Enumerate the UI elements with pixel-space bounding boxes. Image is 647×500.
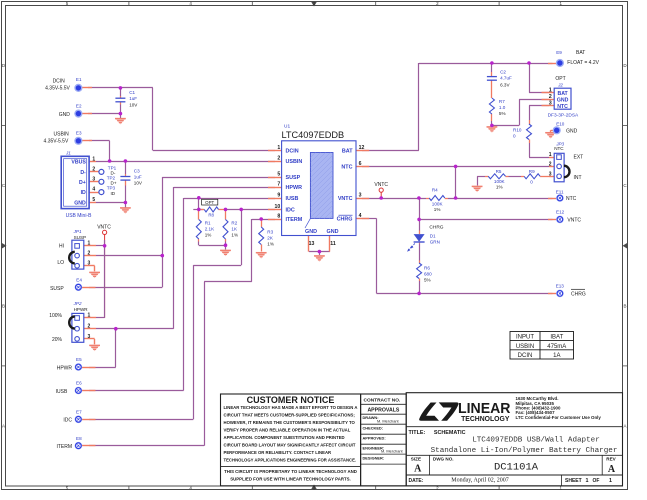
svg-text:3: 3 (359, 193, 362, 199)
svg-text:LO: LO (57, 260, 64, 266)
svg-text:IUSB: IUSB (56, 389, 68, 395)
svg-text:B: B (2, 303, 5, 308)
svg-text:GND: GND (74, 201, 86, 207)
svg-text:1: 1 (92, 156, 95, 162)
svg-text:TECHNOLOGY APPLICATIONS ENGINE: TECHNOLOGY APPLICATIONS ENGINEERING FOR … (224, 458, 357, 463)
svg-text:GND: GND (305, 229, 317, 235)
svg-text:3: 3 (549, 172, 552, 178)
svg-text:5%: 5% (424, 277, 431, 282)
svg-text:APPROVED:: APPROVED: (363, 436, 386, 441)
svg-text:REV: REV (606, 456, 616, 461)
svg-text:TECHNOLOGY: TECHNOLOGY (461, 414, 509, 423)
svg-text:E8: E8 (76, 436, 82, 441)
svg-text:USB Mini-B: USB Mini-B (66, 213, 93, 219)
svg-text:USBIN: USBIN (516, 344, 534, 350)
svg-text:DCIN: DCIN (53, 78, 66, 84)
svg-text:1: 1 (88, 240, 91, 246)
svg-text:2: 2 (88, 323, 91, 329)
svg-text:1: 1 (549, 152, 552, 158)
svg-text:Monday, April 02, 2007: Monday, April 02, 2007 (451, 478, 508, 484)
svg-text:8: 8 (277, 214, 280, 220)
svg-text:10V: 10V (134, 180, 143, 185)
svg-text:13: 13 (309, 241, 315, 247)
svg-text:HPWR: HPWR (286, 185, 303, 191)
svg-text:OPT: OPT (555, 76, 565, 82)
svg-text:LTC4097EDDB: LTC4097EDDB (282, 130, 345, 140)
svg-text:ID: ID (111, 191, 116, 196)
svg-text:DATE:: DATE: (409, 478, 424, 484)
svg-text:2: 2 (88, 250, 91, 256)
svg-text:C3: C3 (134, 168, 140, 173)
svg-text:D1: D1 (430, 234, 436, 239)
svg-text:CHRG: CHRG (571, 292, 586, 298)
svg-text:IBAT: IBAT (550, 335, 563, 341)
svg-text:ITERM: ITERM (56, 444, 72, 450)
svg-text:GND: GND (566, 128, 578, 134)
svg-text:R8: R8 (208, 213, 214, 218)
svg-text:Standalone Li-Ion/Polymer Batt: Standalone Li-Ion/Polymer Battery Charge… (431, 447, 618, 455)
svg-text:LINEAR TECHNOLOGY HAS MADE A B: LINEAR TECHNOLOGY HAS MADE A BEST EFFORT… (224, 405, 358, 410)
svg-text:ITERM: ITERM (286, 217, 303, 223)
svg-text:6: 6 (359, 161, 362, 167)
svg-text:INPUT: INPUT (516, 335, 534, 341)
svg-text:4: 4 (359, 213, 362, 219)
svg-text:CONTRACT NO.: CONTRACT NO. (364, 397, 401, 403)
svg-text:A: A (2, 424, 5, 429)
svg-text:E2: E2 (76, 104, 82, 109)
svg-text:CUSTOMER NOTICE: CUSTOMER NOTICE (247, 395, 335, 405)
svg-text:PERFORMANCE OR RELIABILITY. C: PERFORMANCE OR RELIABILITY. CONTACT LINE… (224, 450, 332, 455)
svg-text:9: 9 (277, 193, 280, 199)
svg-text:E6: E6 (76, 381, 82, 386)
svg-text:R4: R4 (432, 187, 438, 192)
svg-text:3: 3 (92, 176, 95, 182)
svg-text:THIS CIRCUIT IS PROPRIETARY TO: THIS CIRCUIT IS PROPRIETARY TO LINEAR TE… (224, 469, 357, 474)
svg-text:IUSB: IUSB (286, 196, 299, 202)
svg-text:4.35V-5.5V: 4.35V-5.5V (45, 86, 70, 92)
svg-text:2: 2 (549, 162, 552, 168)
svg-text:SUSP: SUSP (286, 175, 301, 181)
svg-text:SHEET: SHEET (565, 478, 582, 484)
svg-text:BAT: BAT (557, 91, 568, 97)
svg-text:R7: R7 (499, 99, 505, 104)
svg-text:SUSP: SUSP (50, 286, 64, 292)
svg-text:VNTC: VNTC (338, 196, 353, 202)
svg-text:VNTC: VNTC (97, 224, 111, 230)
svg-text:CHRG: CHRG (337, 217, 353, 223)
svg-text:IDC: IDC (286, 208, 295, 214)
svg-text:475mA: 475mA (547, 344, 566, 350)
svg-text:GND: GND (557, 98, 569, 104)
svg-text:CIRCUIT BOARD LAYOUT MAY SIGNI: CIRCUIT BOARD LAYOUT MAY SIGNIFICANTLY A… (224, 443, 356, 448)
svg-text:10V: 10V (129, 102, 138, 107)
svg-text:JP1: JP1 (73, 229, 82, 234)
svg-text:7: 7 (277, 182, 280, 188)
svg-text:ID: ID (81, 190, 86, 196)
svg-text:LTC Confidential-For Customer: LTC Confidential-For Customer Use Only (516, 415, 602, 420)
svg-text:2K: 2K (267, 236, 274, 241)
svg-text:1%: 1% (434, 207, 441, 212)
svg-text:E5: E5 (76, 357, 82, 362)
svg-text:VNTC: VNTC (567, 217, 581, 223)
svg-text:CIRCUIT THAT MEETS CUSTOMER-SU: CIRCUIT THAT MEETS CUSTOMER-SUPPLIED SPE… (224, 413, 356, 418)
svg-text:E11: E11 (556, 189, 564, 194)
svg-text:1: 1 (88, 313, 91, 319)
svg-text:APPROVALS: APPROVALS (367, 408, 399, 414)
svg-text:BAT: BAT (342, 149, 353, 155)
svg-text:11: 11 (330, 241, 336, 247)
svg-text:E1: E1 (76, 77, 82, 82)
svg-text:1: 1 (277, 145, 280, 151)
svg-text:1: 1 (549, 88, 552, 94)
svg-text:E12: E12 (556, 210, 565, 215)
svg-text:TITLE:: TITLE: (409, 430, 426, 436)
svg-text:A: A (414, 464, 422, 475)
svg-text:HPWR: HPWR (74, 307, 89, 312)
svg-text:1: 1 (586, 478, 589, 484)
svg-text:C2: C2 (500, 69, 506, 74)
svg-text:E4: E4 (76, 277, 82, 282)
svg-text:R5: R5 (496, 169, 502, 174)
svg-text:1%: 1% (205, 232, 212, 237)
svg-text:EXT: EXT (574, 154, 584, 160)
svg-text:J2: J2 (557, 83, 563, 88)
svg-text:DESIGNER:: DESIGNER: (363, 456, 385, 461)
svg-text:NTC: NTC (554, 146, 564, 151)
svg-text:HI: HI (59, 244, 64, 250)
svg-text:10: 10 (275, 204, 281, 210)
svg-text:E9: E9 (556, 50, 562, 55)
svg-text:GND: GND (327, 229, 339, 235)
svg-text:680: 680 (424, 271, 432, 276)
svg-text:1%: 1% (267, 242, 274, 247)
svg-text:1K: 1K (231, 226, 238, 231)
svg-text:E10: E10 (556, 122, 565, 127)
svg-text:A: A (608, 464, 616, 475)
svg-text:DWG NO.: DWG NO. (433, 456, 454, 461)
svg-text:E7: E7 (76, 410, 82, 415)
svg-text:3: 3 (88, 261, 91, 267)
svg-text:1uF: 1uF (129, 96, 137, 101)
svg-text:R2: R2 (231, 220, 237, 225)
svg-text:1: 1 (609, 478, 612, 484)
svg-text:SIZE: SIZE (411, 456, 421, 461)
svg-text:GRN: GRN (430, 240, 440, 245)
svg-text:NTC: NTC (557, 104, 568, 110)
svg-text:2: 2 (549, 94, 552, 100)
svg-text:VBUS: VBUS (71, 159, 86, 165)
svg-text:LTC4097EDDB USB/Wall Adapter: LTC4097EDDB USB/Wall Adapter (472, 437, 600, 445)
svg-text:CHECKED:: CHECKED: (363, 426, 384, 431)
svg-text:SUSP: SUSP (74, 235, 87, 240)
svg-text:B: B (623, 303, 626, 308)
svg-text:0: 0 (530, 179, 533, 184)
svg-text:5: 5 (277, 172, 280, 178)
svg-text:100K: 100K (494, 179, 506, 184)
svg-text:1uF: 1uF (134, 174, 142, 179)
svg-text:A: A (623, 424, 626, 429)
svg-text:1.0: 1.0 (499, 105, 506, 110)
svg-text:0: 0 (513, 134, 516, 139)
svg-text:APPLICATION. COMPONENT SUBSTI: APPLICATION. COMPONENT SUBSTITUTION AND … (224, 435, 345, 440)
svg-text:1A: 1A (553, 353, 560, 359)
svg-text:NTC: NTC (341, 165, 352, 171)
svg-text:100K: 100K (432, 201, 444, 206)
svg-text:R1: R1 (205, 220, 211, 225)
svg-text:DC1101A: DC1101A (494, 462, 539, 474)
svg-text:FLOAT = 4.2V: FLOAT = 4.2V (567, 60, 599, 66)
svg-text:4.35V-5.5V: 4.35V-5.5V (44, 139, 69, 145)
svg-text:INT: INT (574, 175, 582, 181)
svg-text:M. Merchant: M. Merchant (377, 419, 400, 424)
svg-text:12: 12 (359, 145, 365, 151)
svg-text:C1: C1 (129, 90, 135, 95)
svg-text:D-: D- (80, 170, 86, 176)
svg-text:USBIN: USBIN (54, 131, 70, 137)
svg-text:VERIFY PROPER AND RELIABLE OPE: VERIFY PROPER AND RELIABLE OPERATION IN … (224, 428, 351, 433)
svg-text:JP2: JP2 (73, 301, 82, 306)
svg-text:1%: 1% (496, 184, 503, 189)
svg-text:SCHEMATIC: SCHEMATIC (434, 430, 466, 436)
svg-text:USBIN: USBIN (286, 159, 303, 165)
svg-text:6.3V: 6.3V (500, 82, 510, 87)
svg-text:R9: R9 (529, 169, 535, 174)
svg-text:5: 5 (92, 197, 95, 203)
svg-text:4: 4 (92, 187, 95, 193)
svg-text:5%: 5% (499, 111, 506, 116)
svg-text:100%: 100% (49, 313, 62, 319)
svg-text:GND: GND (59, 112, 71, 118)
svg-text:VNTC: VNTC (374, 182, 388, 188)
svg-text:R3: R3 (267, 230, 273, 235)
svg-text:HPWR: HPWR (57, 365, 73, 371)
svg-text:IDC: IDC (63, 418, 72, 424)
svg-text:OF: OF (593, 478, 600, 484)
svg-text:M. Merchant: M. Merchant (381, 449, 404, 454)
svg-text:OPT: OPT (205, 200, 214, 205)
svg-text:D+: D+ (79, 180, 86, 186)
svg-text:DCIN: DCIN (286, 149, 299, 155)
svg-text:3: 3 (88, 334, 91, 340)
svg-text:J1: J1 (65, 151, 71, 156)
svg-text:NTC: NTC (566, 196, 577, 202)
svg-text:4.7uF: 4.7uF (500, 76, 512, 81)
svg-text:3: 3 (549, 101, 552, 107)
svg-text:2.1K: 2.1K (205, 226, 215, 231)
svg-text:DF3-3P-2DSA: DF3-3P-2DSA (548, 113, 579, 119)
svg-text:20%: 20% (52, 337, 63, 343)
svg-text:2: 2 (92, 166, 95, 172)
svg-text:E13: E13 (556, 284, 565, 289)
svg-text:R6: R6 (424, 265, 430, 270)
svg-text:1%: 1% (231, 232, 238, 237)
svg-text:SUPPLIED FOR USE WITH LINEAR T: SUPPLIED FOR USE WITH LINEAR TECHNOLOGY … (230, 476, 351, 481)
svg-text:R10: R10 (513, 128, 522, 133)
svg-text:CHRG: CHRG (429, 225, 443, 231)
svg-text:HOWEVER, IT REMAINS THE CUSTOM: HOWEVER, IT REMAINS THE CUSTOMER'S RESPO… (224, 420, 356, 425)
svg-text:2: 2 (277, 156, 280, 162)
svg-text:BAT: BAT (576, 50, 585, 56)
svg-text:E3: E3 (76, 131, 82, 136)
svg-text:U1: U1 (284, 123, 290, 129)
svg-text:DCIN: DCIN (518, 353, 533, 359)
